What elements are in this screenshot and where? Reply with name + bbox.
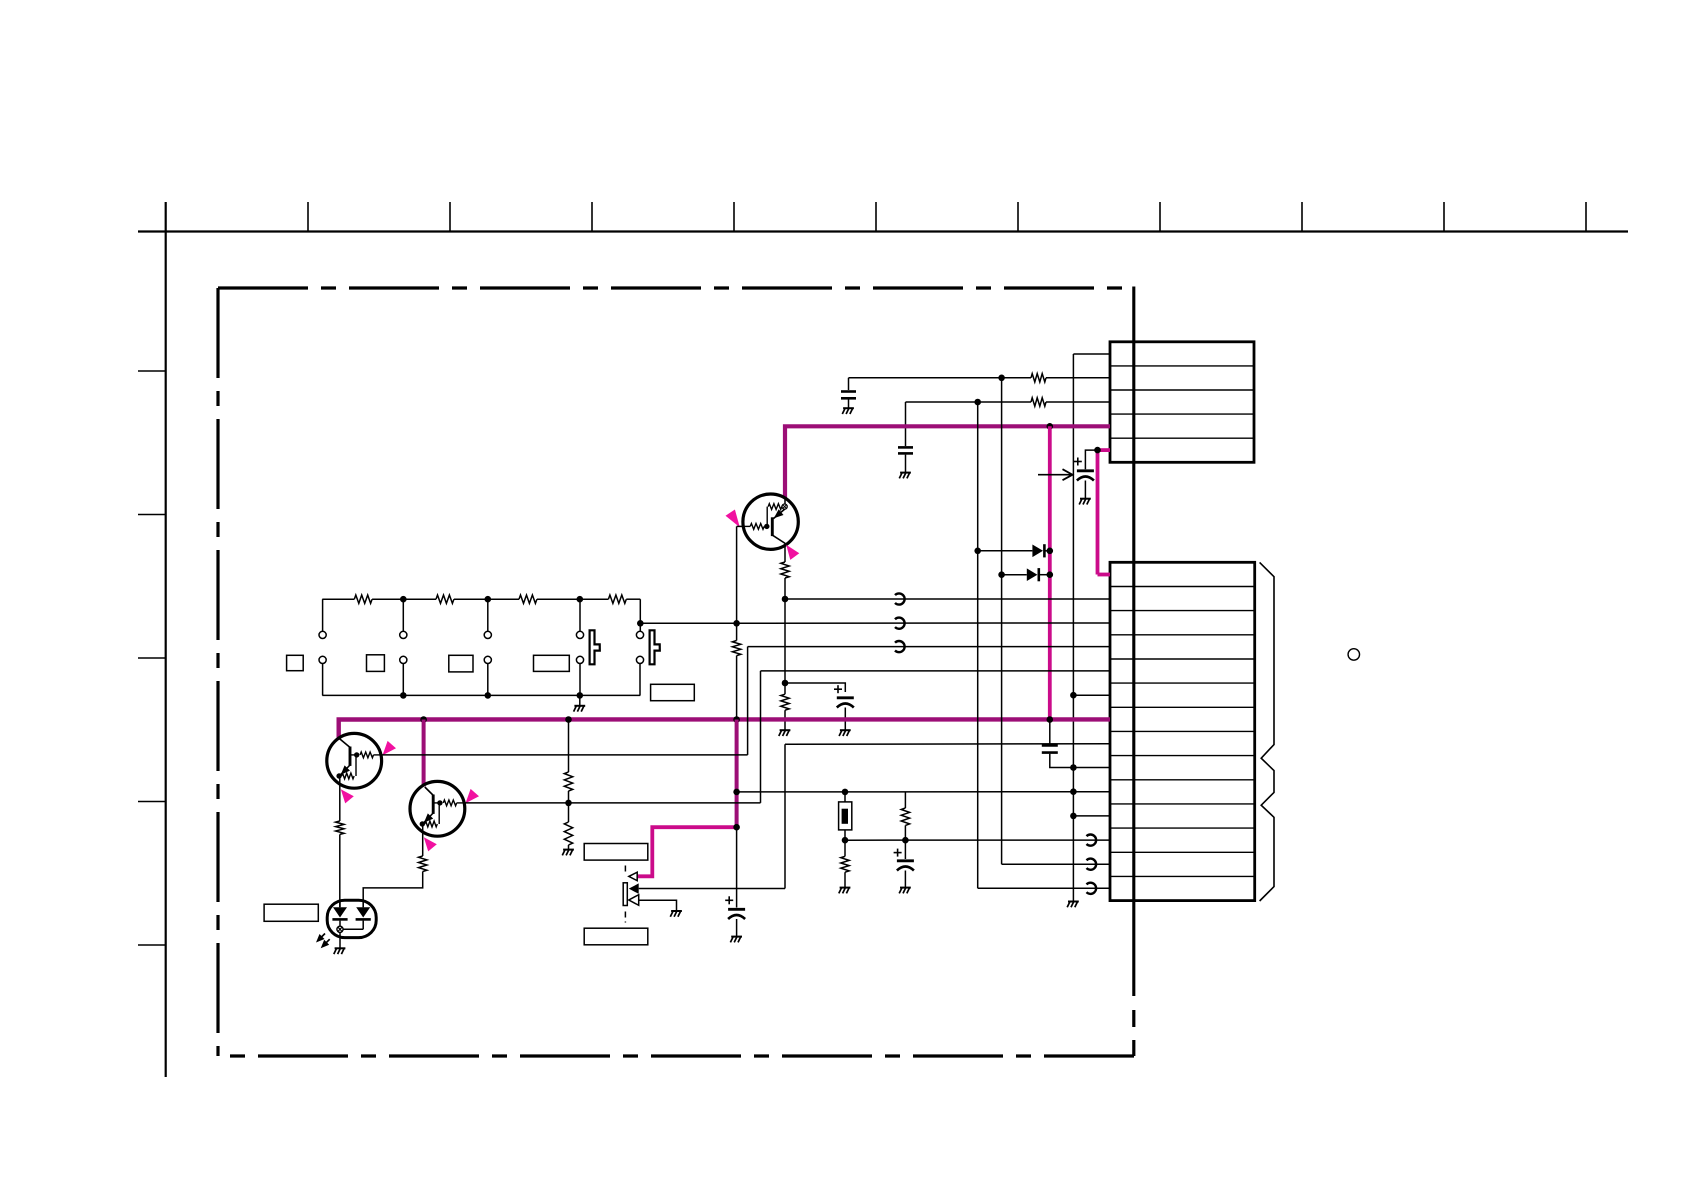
resistor R6: [1031, 398, 1046, 406]
node dot rail2 b: [485, 692, 492, 699]
flag marker Q1 base: [726, 510, 740, 528]
resistor R3: [519, 595, 537, 603]
capacitor C5 top lead: [736, 827, 738, 907]
resistor R7: [564, 772, 572, 791]
node dot rail2 c: [577, 692, 584, 699]
LED cathode tie wire: [343, 928, 363, 930]
node dot bus Q3: [420, 716, 427, 723]
jumper hook row3: [895, 618, 905, 629]
jumper hook row4: [895, 641, 905, 652]
highlight branch vertical x1049: [1048, 426, 1052, 719]
LED common pin: [337, 926, 343, 932]
wire to node A: [784, 578, 786, 599]
module boundary dashed box left edge: [216, 288, 219, 1056]
wire CN2 pin14 net: [978, 887, 1110, 889]
node dot A: [782, 596, 789, 603]
node dot rail2 a: [400, 692, 407, 699]
node dot D2 anode: [998, 571, 1005, 578]
wire CN2 pin5 net: [761, 670, 1111, 672]
label box S2: [367, 655, 385, 672]
wire CN2 pin6 stub: [1073, 694, 1110, 696]
frame border horizontal rule: [138, 230, 1628, 232]
resistor R8: [564, 822, 572, 845]
ground G10: [671, 910, 682, 912]
LED D4: [356, 907, 370, 917]
wire R13 elbow: [363, 872, 423, 908]
LED ground lead: [339, 932, 341, 947]
photo emitter package outline: [327, 900, 376, 937]
jumper hook row12: [1087, 835, 1097, 846]
resistor R12: [336, 821, 344, 834]
node dot rail a: [400, 596, 407, 603]
wire node A to node B: [784, 599, 786, 683]
wire Q3 base riser: [760, 671, 762, 803]
wire CN2 pin10 net: [737, 791, 1110, 793]
ground G9: [335, 947, 346, 949]
module boundary right edge solid segment: [1132, 287, 1135, 997]
label box S1: [287, 655, 304, 670]
module boundary dashed box bottom edge: [218, 1054, 1134, 1057]
highlight bus wire upper: [785, 426, 1110, 498]
node dot D2 cathode: [1047, 571, 1054, 578]
capacitor C1 lower lead: [848, 400, 850, 408]
wire gnd net vertical x1073: [1072, 354, 1074, 901]
resistor R15: [844, 840, 846, 856]
capacitor C2 lower lead: [905, 455, 907, 472]
capacitor C4 lower lead: [844, 708, 846, 730]
IR detector lower triangle: [629, 895, 639, 906]
jumper hook row13: [1087, 859, 1097, 870]
highlight branch vertical x1097: [1096, 450, 1100, 574]
wire CN1 pin2 net: [849, 377, 1032, 379]
transistor Q2: [327, 733, 382, 788]
node dot bus R-chain: [565, 716, 572, 723]
wire Q1 base: [737, 525, 744, 527]
label box S5: [651, 684, 695, 700]
label box IR upper: [584, 844, 648, 861]
switch contacts upper: [319, 631, 326, 638]
resistor R1: [354, 595, 372, 603]
capacitor C6: [904, 840, 906, 859]
ground G7: [574, 705, 585, 707]
resistor R9 base to bus: [736, 623, 738, 640]
node dot at x977 y402: [974, 399, 981, 406]
IR detector middle triangle: [629, 883, 639, 894]
wire Q2 base: [381, 754, 747, 756]
wire CN2 pin13 net: [1002, 863, 1110, 865]
node dot sw5 row3: [637, 620, 644, 627]
IR detector axis dashes: [624, 866, 626, 876]
node dot row11: [1070, 813, 1077, 820]
emission arrows: [319, 934, 325, 940]
frame top tick marks: [307, 202, 309, 232]
wire diode D1 net: [978, 550, 1033, 552]
node dot row9: [1070, 764, 1077, 771]
wire CN2 pin2 net: [785, 598, 1110, 600]
capacitor C4 top lead: [785, 683, 845, 692]
resistor R10: [781, 562, 789, 578]
jumper hook row14: [1087, 883, 1097, 894]
node dot D1 cathode: [1047, 548, 1054, 555]
resistor R14 lead: [904, 792, 906, 808]
transistor Q1: [743, 494, 798, 549]
highlight branch to Q3: [422, 720, 426, 787]
highlight branch x736 lower: [735, 720, 739, 828]
wire vertical x1001: [1001, 378, 1003, 864]
LED D3 cathode lead: [339, 921, 341, 927]
ground G11: [731, 936, 742, 938]
node dot D1 anode: [974, 548, 981, 555]
node dot at x1001 y377: [998, 375, 1005, 382]
node dot bus IR: [733, 824, 740, 831]
jumper hook row2: [895, 593, 905, 604]
wire R8 to ground: [568, 845, 570, 849]
capacitor C2: [898, 446, 913, 449]
label box PH1: [264, 904, 318, 921]
fuse PS1 leads: [844, 792, 846, 802]
annotation arrow: [1038, 474, 1073, 476]
ground G8: [563, 849, 574, 851]
brace marker right of CN2: [1260, 562, 1274, 901]
node dot R14 bottom: [902, 837, 909, 844]
ground G2: [900, 472, 911, 474]
highlight wire CN2 pin1 stub: [1098, 573, 1111, 577]
capacitor C7 top lead: [1049, 720, 1051, 745]
wire Q1 collector: [784, 544, 786, 563]
module boundary dashed box top edge: [218, 286, 1134, 289]
capacitor C3: [1077, 469, 1094, 472]
node dot B: [782, 680, 789, 687]
flag marker Q3 collector: [424, 837, 437, 851]
capacitor C3 lower lead: [1084, 481, 1086, 499]
ground G7 lead: [579, 695, 581, 705]
switch column drops: [322, 599, 324, 631]
node dot bus Q1: [733, 716, 740, 723]
wire Q2 collector: [339, 777, 341, 822]
highlight main bus wire: [339, 719, 1110, 739]
ground G3 below CN2: [1068, 901, 1079, 903]
resistor R11: [784, 683, 786, 694]
diode D2: [1027, 568, 1038, 581]
flag marker Q2 base: [383, 741, 397, 755]
capacitor C5: [728, 908, 745, 911]
switch return rail: [322, 694, 640, 696]
capacitor C2 lead: [905, 402, 907, 446]
wire CN2 pin3 net: [640, 622, 1110, 624]
flag marker Q1 collector: [786, 545, 799, 560]
reference circle marker: [1348, 649, 1360, 661]
wire diode D2 net: [1002, 574, 1027, 576]
wire bus to R7: [568, 720, 570, 773]
wire Q3 collector: [422, 824, 424, 856]
wire CN1 pin3 net: [906, 401, 1032, 403]
frame left tick marks: [138, 370, 166, 372]
wire CN1 pin1 stub: [1073, 353, 1110, 355]
switch column returns: [322, 664, 324, 696]
node dot row10: [1070, 788, 1077, 795]
wire vertical x977: [977, 402, 979, 888]
diode D1: [1032, 545, 1043, 558]
capacitor C4: [837, 696, 854, 699]
fuse PS1 body: [839, 802, 852, 830]
ground G1: [843, 407, 854, 409]
node dot x736 row10: [733, 789, 740, 796]
switch contacts lower: [319, 656, 326, 663]
IR detector upper triangle: [629, 872, 637, 881]
node dot Q1 base row3: [733, 620, 740, 627]
node dot bus upper: [1047, 423, 1054, 430]
resistor R13: [419, 856, 427, 872]
connector CN1: [1110, 342, 1254, 463]
connector CN2: [1110, 562, 1255, 900]
LED D3 anode lead: [339, 900, 341, 907]
LED D4 anode lead: [362, 900, 364, 907]
wire IR lower to ground: [639, 900, 677, 910]
node dot rail b: [485, 596, 492, 603]
node dot bus cap: [1047, 716, 1054, 723]
wire IR out / CN2 pin8 net: [639, 888, 785, 890]
switch rail wire: [322, 598, 354, 600]
ground G5: [840, 729, 851, 731]
flag marker Q2 collector: [341, 789, 354, 803]
LED D3: [333, 907, 347, 917]
node dot fuse bottom: [842, 837, 849, 844]
label box S3: [449, 655, 473, 672]
node dot rail c: [577, 596, 584, 603]
flag marker Q3 base: [466, 789, 480, 803]
switch S5 plunger: [650, 630, 660, 664]
label box S4: [534, 655, 570, 671]
capacitor C1 lead: [848, 378, 850, 390]
node dot fuse top: [842, 789, 849, 796]
capacitor C6 lower lead: [904, 871, 906, 888]
capacitor C3 leads: [1085, 450, 1097, 469]
resistor R2: [436, 595, 454, 603]
capacitor C5 lower lead: [736, 919, 738, 936]
ground G13: [900, 887, 911, 889]
wire Q3 base: [465, 802, 761, 804]
label box IR lower: [584, 928, 648, 945]
switch S4 plunger: [590, 630, 600, 664]
resistor R4: [608, 595, 626, 603]
resistor R5: [1031, 374, 1046, 382]
wire CN2 pin12 net: [845, 839, 1110, 841]
resistor R14: [901, 808, 909, 825]
wire CN2 pin11 stub: [1073, 815, 1110, 817]
ground G6: [780, 729, 791, 731]
wire CN2 pin4 net: [748, 646, 1110, 648]
wire R7-R8: [568, 791, 570, 822]
highlight wire to IR detector: [638, 827, 737, 876]
node dot x1097: [1094, 447, 1101, 454]
resistor R14 lower lead: [904, 825, 906, 840]
highlight wire CN1 pin5 stub: [1098, 448, 1111, 452]
node dot Q3 base chain: [565, 800, 572, 807]
capacitor C1: [841, 390, 856, 393]
node dot row6: [1070, 692, 1077, 699]
wire R12 to LED: [339, 834, 341, 907]
wire Q2 base riser: [747, 647, 749, 755]
capacitor C7 lower lead: [1050, 754, 1074, 768]
IR detector body: [623, 883, 627, 906]
module boundary dashed box right edge lower dashes: [1132, 1010, 1135, 1027]
ground G12: [840, 887, 851, 889]
frame border vertical rule: [165, 202, 167, 1077]
ground G4: [1080, 498, 1091, 500]
capacitor C7: [1042, 744, 1058, 747]
wire CN2 pin9 stub: [1073, 767, 1110, 769]
transistor Q3: [410, 781, 465, 836]
